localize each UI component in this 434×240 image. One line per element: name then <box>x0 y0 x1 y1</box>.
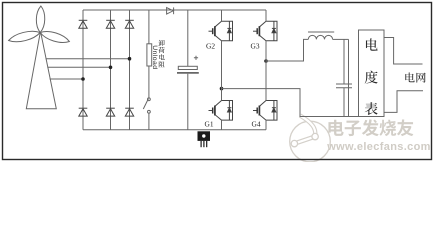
unload resistor branch wire <box>148 10 150 44</box>
label 电度表 <box>365 38 378 115</box>
unload resistor R <box>147 44 152 66</box>
rectifier leg 3 <box>129 10 131 130</box>
inductor L <box>308 35 332 39</box>
border frame <box>3 3 432 160</box>
output wire lower phase <box>222 89 359 117</box>
phase wire 1 <box>46 58 130 60</box>
IGBT G1 <box>205 101 233 129</box>
rectifier bottom diode D6 <box>125 107 134 109</box>
IGBT G3 <box>251 21 278 50</box>
phase wire 3 <box>50 78 83 80</box>
G2-G1 leg wire <box>221 41 223 101</box>
G2 collector wire <box>221 10 223 21</box>
rectifier top diode D2 <box>106 19 115 21</box>
rectifier bottom diode D5 <box>106 107 115 109</box>
rectifier leg 1 <box>82 10 84 130</box>
polarity plus <box>194 56 198 60</box>
watermark logo elecfans <box>290 116 331 162</box>
grid terminal top <box>384 38 423 65</box>
label 卸荷电阻 <box>158 40 164 68</box>
TO-220 device on bottom rail <box>198 131 211 147</box>
AC filter capacitor C2 <box>336 39 352 116</box>
G3-G4 leg wire <box>265 41 267 101</box>
bottom DC rail <box>83 129 266 131</box>
IGBT G2 <box>206 21 233 50</box>
svg-text:Unload: Unload <box>151 45 158 69</box>
svg-text:G4: G4 <box>252 119 261 128</box>
IGBT G4 <box>252 101 278 129</box>
G3 collector wire <box>265 10 267 21</box>
meter input bus <box>348 39 350 116</box>
svg-text:G3: G3 <box>251 41 260 50</box>
svg-text:G2: G2 <box>206 41 215 50</box>
output wire upper phase <box>266 39 308 61</box>
top DC rail <box>83 9 266 11</box>
rectifier top diode D3 <box>125 19 134 21</box>
rectifier bottom diode D4 <box>79 107 88 109</box>
rectifier leg 2 <box>110 10 112 130</box>
grid terminal bottom <box>384 91 423 113</box>
G4 emitter wire <box>265 120 267 130</box>
label 电网 <box>405 72 425 82</box>
turbine tower <box>26 33 56 109</box>
phase wire 2 <box>47 66 110 68</box>
wind turbine blades <box>36 6 44 33</box>
kWh meter box <box>359 30 385 117</box>
rectifier top diode D1 <box>79 19 88 21</box>
switch S <box>148 98 151 101</box>
G1 emitter wire <box>221 120 223 130</box>
svg-text:www.elecfans.com: www.elecfans.com <box>326 141 431 153</box>
junction dots <box>81 57 268 90</box>
watermark text 电子发烧友 <box>329 120 414 137</box>
svg-text:G1: G1 <box>205 119 214 128</box>
series blocking diode <box>167 8 174 15</box>
DC bus capacitor C1 <box>187 10 189 66</box>
